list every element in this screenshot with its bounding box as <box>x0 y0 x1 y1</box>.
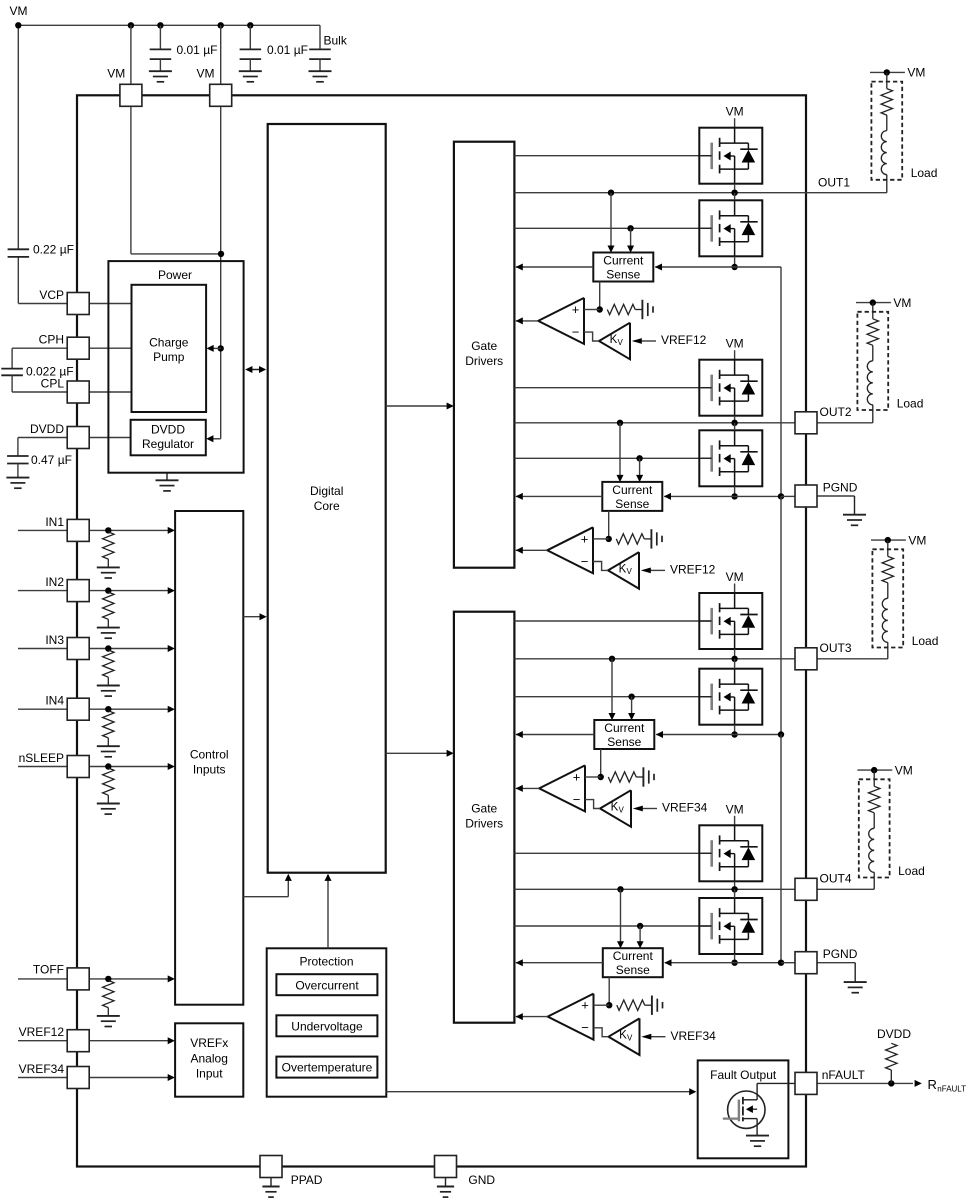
arrow CS4 tap2 <box>637 941 644 948</box>
svg-text:Load: Load <box>912 634 939 648</box>
junction OUT2 at FET leg <box>731 420 737 426</box>
wire VM feed load4 <box>857 769 892 771</box>
wire CS4 tap1 <box>620 889 622 946</box>
label VREF12 <box>19 1025 65 1039</box>
wire VM rail horizontal <box>18 24 320 26</box>
arrow CS2 tap1 <box>617 475 624 482</box>
wire CS2 to GateDrivers <box>516 495 602 497</box>
arrow into GateDrivers2 <box>447 750 454 757</box>
junction VM load4 <box>871 767 877 773</box>
arrow into GateDrivers1 <box>447 403 454 410</box>
label C1 value <box>177 43 218 57</box>
arrow CS3 tap2 <box>628 713 635 720</box>
svg-text:CPH: CPH <box>39 333 64 347</box>
wire CS4 to GateDrivers <box>516 962 603 964</box>
label Power <box>158 268 192 282</box>
ground nSLEEP pulldown <box>97 804 120 815</box>
junction comparator node 2 <box>606 536 612 542</box>
pin PGND1 <box>795 485 817 507</box>
block Power outline <box>108 261 243 473</box>
wire source join vertical lower <box>780 735 782 963</box>
block Undervoltage <box>276 1015 377 1036</box>
transistor Q9 fault (circle) <box>728 1091 765 1128</box>
pin IN2 <box>67 580 89 602</box>
inductor load4 <box>869 828 874 872</box>
label Load 4 <box>898 864 925 878</box>
svg-text:0.22 µF: 0.22 µF <box>33 243 74 257</box>
svg-text:K: K <box>619 1030 627 1042</box>
svg-text:K: K <box>619 563 627 575</box>
svg-text:Protection: Protection <box>299 955 353 969</box>
resistor load2 <box>867 303 878 346</box>
wire Q2 source to sense line <box>734 256 736 267</box>
ground below C3 <box>309 71 332 82</box>
arrow CS3 into GateDrivers <box>516 731 523 738</box>
wire Q5 source to OUT3 <box>734 649 736 659</box>
wire opamp3 plus input <box>585 776 601 778</box>
label Load 3 <box>912 634 939 648</box>
junction VM rail at C1 <box>157 22 163 28</box>
resistor RnFAULT pullup <box>886 1043 897 1083</box>
svg-text:VM: VM <box>197 67 215 81</box>
arrow VREF34 into VREFx block <box>168 1074 175 1081</box>
wire CS1 tap1 <box>610 193 612 251</box>
pin PPAD <box>260 1156 282 1178</box>
wire bridge3 low-side gate <box>514 696 711 698</box>
arrow opamp2 into GateDrivers <box>516 547 523 554</box>
label IN3 <box>45 633 64 647</box>
junction sense line bridge1 <box>731 264 737 270</box>
label Charge Pump <box>149 336 189 365</box>
block VREFx Analog Input <box>175 1023 243 1096</box>
transistor Q7 (high-side) <box>699 825 762 881</box>
svg-text:VM: VM <box>10 4 28 18</box>
label VCP <box>39 288 64 302</box>
wire bridge2 high-side gate <box>514 387 711 389</box>
wire net OUT3 <box>514 658 887 660</box>
svg-text:−: − <box>572 324 580 339</box>
junction CS1 tap1 <box>608 190 614 196</box>
wire VM feed load3 <box>871 539 906 541</box>
pin GND <box>435 1156 457 1178</box>
wire VM pin1 internal drop <box>131 106 221 254</box>
junction nSLEEP pulldown <box>105 763 111 769</box>
transistor Q5 (high-side) <box>699 593 762 649</box>
svg-text:Power: Power <box>158 268 192 282</box>
svg-text:Sense: Sense <box>616 963 650 977</box>
svg-text:K: K <box>611 802 619 814</box>
op-amp U2 <box>547 527 593 573</box>
net VM above Q1 <box>726 105 744 128</box>
IC boundary (chip outline) <box>77 95 806 1166</box>
label Bulk <box>324 34 348 48</box>
wire opamp3 output <box>516 787 539 789</box>
wire VREF34 into Kv3 <box>642 808 657 810</box>
pin VCP <box>67 293 89 315</box>
svg-text:VREF12: VREF12 <box>19 1025 65 1039</box>
wire PGND1 to ground <box>817 496 854 515</box>
inductor load1 <box>881 131 887 175</box>
svg-text:TOFF: TOFF <box>33 963 64 977</box>
arrow CS2 into GateDrivers <box>516 493 523 500</box>
ground PPAD <box>262 1178 279 1198</box>
wire rail to VM pin2 <box>220 25 222 84</box>
pin VREF34 <box>67 1067 89 1089</box>
svg-text:VM: VM <box>893 296 911 310</box>
wire opamp4 plus input <box>594 1004 610 1006</box>
wire source join vertical middle <box>780 496 782 734</box>
label IN4 <box>45 694 64 708</box>
wire VM pin2 internal drop <box>220 106 222 439</box>
svg-text:−: − <box>573 792 581 807</box>
svg-text:V: V <box>627 1034 633 1043</box>
Q9 drain path <box>743 1083 795 1099</box>
svg-text:Bulk: Bulk <box>324 34 348 48</box>
wire sense line bridge3 right <box>735 734 781 736</box>
svg-text:K: K <box>610 334 618 346</box>
block Digital Core <box>268 124 386 873</box>
arrow nSLEEP into Control Inputs <box>168 763 175 770</box>
label Gate Drivers 1 <box>465 339 503 368</box>
junction VM load1 <box>884 69 890 75</box>
block Current Sense 3 <box>594 720 654 749</box>
arrow into DigitalCore bottom 1 <box>285 874 292 881</box>
resistor offset R3 <box>608 772 643 782</box>
junction sense line bridge2 <box>731 493 737 499</box>
svg-text:Current: Current <box>604 721 645 735</box>
svg-text:Inputs: Inputs <box>193 763 226 777</box>
pin CPL <box>67 381 89 403</box>
resistor IN4 pulldown <box>103 711 114 746</box>
svg-text:VM: VM <box>726 105 744 119</box>
junction TOFF pulldown <box>105 976 111 982</box>
capacitor C3 bulk <box>309 25 331 71</box>
capacitor C4 0.22uF <box>8 249 30 257</box>
ground below C1 <box>149 71 172 82</box>
wire ControlInputs to DigitalCore <box>243 616 265 618</box>
arrow VREF12 into Kv1 <box>632 338 642 344</box>
wire CS4 tap2 <box>639 926 641 947</box>
label VREF12 bridge2 <box>670 563 716 577</box>
label Current Sense 1 <box>603 254 644 282</box>
label Load 2 <box>897 396 924 410</box>
amplifier Kv3 <box>600 790 631 827</box>
junction at PGND2 line <box>778 960 784 966</box>
wire Q4 source to sense line <box>734 486 736 496</box>
label C6 value <box>31 453 72 467</box>
svg-text:VM: VM <box>107 67 125 81</box>
arrow into DigitalCore bottom 2 <box>325 874 332 881</box>
svg-text:V: V <box>627 567 633 576</box>
junction VM rail at VM pin1 <box>128 22 134 28</box>
junction CS3 tap2 <box>628 694 634 700</box>
svg-text:Current: Current <box>613 949 654 963</box>
wire PGND2 to ground <box>817 963 855 982</box>
wire sense line bridge4 right <box>735 962 781 964</box>
resistor nSLEEP pulldown <box>103 768 114 803</box>
svg-text:Fault Output: Fault Output <box>710 1068 777 1082</box>
svg-text:PPAD: PPAD <box>291 1173 323 1187</box>
svg-text:VM: VM <box>726 337 744 351</box>
svg-text:Current: Current <box>612 483 653 497</box>
block Current Sense 2 <box>602 482 662 511</box>
wire CS3 tap2 <box>631 697 633 719</box>
label IN1 <box>45 515 64 529</box>
wire opamp1 output <box>516 320 538 322</box>
svg-text:Regulator: Regulator <box>142 437 194 451</box>
amplifier Kv1 <box>599 323 630 360</box>
label OUT2 <box>820 405 852 419</box>
pin OUT2 <box>795 412 817 434</box>
pin OUT3 <box>795 648 817 670</box>
junction VM rail at C2 <box>247 22 253 28</box>
resistor offset R4 <box>617 1000 652 1010</box>
ground PGND1 <box>843 515 866 526</box>
svg-text:PGND: PGND <box>823 481 858 495</box>
wire bridge4 high-side gate <box>514 852 711 854</box>
transistor Q8 (low-side) <box>699 898 762 954</box>
junction IN1 pulldown <box>105 527 111 533</box>
label Overtemperature <box>282 1061 373 1075</box>
label VREF34 bridge3 <box>662 801 708 815</box>
arrow VREF12 into Kv2 <box>641 568 651 574</box>
wire sense line bridge2 right <box>735 495 781 497</box>
ground Q9 source <box>746 1136 769 1147</box>
label OUT3 <box>820 641 852 655</box>
svg-text:Input: Input <box>196 1067 223 1081</box>
svg-text:Drivers: Drivers <box>465 817 503 831</box>
label Control Inputs <box>190 748 229 777</box>
junction CS2 tap2 <box>636 455 642 461</box>
label IN2 <box>45 575 64 589</box>
block Charge Pump <box>132 285 207 412</box>
wire CS2 tap1 <box>619 423 621 480</box>
Q9 substrate arrow <box>746 1105 757 1113</box>
svg-text:−: − <box>581 554 589 569</box>
junction IN4 pulldown <box>105 706 111 712</box>
wire Q6 source to sense line <box>734 725 736 735</box>
wire DigitalCore to GateDrivers2 <box>386 752 452 754</box>
wire opamp2 output <box>516 549 547 551</box>
wire Q3 source to OUT2 <box>734 416 736 423</box>
junction VM rail at VM pin2 <box>218 22 224 28</box>
wire IN4 to Control Inputs <box>89 708 173 710</box>
svg-text:Analog: Analog <box>191 1052 228 1066</box>
label PGND2 <box>823 947 858 961</box>
wire sense into CS2 <box>664 495 734 497</box>
wire DigitalCore to GateDrivers1 <box>386 405 452 407</box>
svg-text:IN2: IN2 <box>45 575 64 589</box>
label nSLEEP <box>19 751 64 765</box>
wire Protection to Fault Output <box>386 1091 694 1093</box>
svg-text:DVDD: DVDD <box>877 1027 911 1041</box>
label Current Sense 4 <box>613 949 654 977</box>
svg-text:0.022 µF: 0.022 µF <box>26 365 74 379</box>
wire CPL to charge pump <box>89 391 131 393</box>
label PPAD <box>291 1173 323 1187</box>
wire IN2 to Control Inputs <box>89 590 173 592</box>
current reference ground 2 <box>651 529 662 548</box>
wire sense2 to PGND1 pin <box>781 495 795 497</box>
svg-text:Gate: Gate <box>471 339 497 353</box>
capacitor C2 0.01uF <box>240 25 262 71</box>
block Control Inputs <box>175 511 243 1005</box>
wire IN2 external stub <box>18 590 67 592</box>
junction CS4 tap1 <box>617 886 623 892</box>
arrow VREF34 into Kv4 <box>641 1034 651 1040</box>
wire VM to DVDD regulator <box>209 438 221 440</box>
svg-text:Load: Load <box>897 396 924 410</box>
wire CPH to charge pump <box>89 347 131 349</box>
svg-text:VM: VM <box>895 763 913 777</box>
wire IN3 external stub <box>18 648 67 650</box>
wire CS3 tap1 <box>611 659 613 719</box>
label DVDD Regulator <box>142 423 194 452</box>
svg-text:IN4: IN4 <box>45 694 64 708</box>
svg-text:VREFx: VREFx <box>190 1036 228 1050</box>
wire load4 to OUT4 <box>873 872 875 889</box>
op-amp U1 <box>538 298 584 344</box>
resistor IN3 pulldown <box>103 650 114 685</box>
wire sense into CS3 <box>656 734 734 736</box>
wire IN1 external stub <box>18 529 67 531</box>
net VM above Q3 <box>726 337 744 360</box>
pin VREF12 <box>67 1030 89 1052</box>
wire VREF12 external stub <box>18 1040 67 1042</box>
svg-text:Load: Load <box>898 864 925 878</box>
arrow into CS3 <box>656 731 663 738</box>
label RnFAULT <box>928 1077 967 1094</box>
wire CS2 to comparator node <box>608 511 610 539</box>
label CPL <box>41 377 65 391</box>
pin VM1 label <box>107 67 125 81</box>
wire IN3 to Control Inputs <box>89 648 173 650</box>
transistor Q4 (low-side) <box>699 430 762 486</box>
block DVDD Regulator <box>131 420 206 456</box>
label GND <box>468 1173 495 1187</box>
wire Kv3 to opamp minus <box>585 800 600 809</box>
svg-text:VCP: VCP <box>39 288 64 302</box>
wire VREF34 to VREFx block <box>89 1077 173 1079</box>
ground TOFF pulldown <box>97 1016 120 1027</box>
svg-text:DVDD: DVDD <box>30 422 64 436</box>
arrow into CS1 <box>655 264 662 271</box>
wire bridge4 low-side gate <box>514 925 711 927</box>
wire load2 to OUT2 <box>872 405 874 423</box>
arrow CS4 tap1 <box>617 941 624 948</box>
wire opamp4 output <box>516 1016 548 1018</box>
label DVDD pin <box>30 422 64 436</box>
block Current Sense 1 <box>593 253 653 282</box>
svg-text:VREF34: VREF34 <box>662 801 708 815</box>
transistor Q3 (high-side) <box>699 360 762 416</box>
svg-text:PGND: PGND <box>823 947 858 961</box>
svg-text:+: + <box>581 998 589 1013</box>
junction sense line bridge3 <box>731 731 737 737</box>
arrow CS1 tap2 <box>627 246 634 253</box>
svg-text:GND: GND <box>468 1173 495 1187</box>
resistor offset R2 <box>616 534 651 544</box>
svg-text:VREF12: VREF12 <box>661 333 707 347</box>
wire VM feed load2 <box>856 302 891 304</box>
svg-text:VREF34: VREF34 <box>671 1029 717 1043</box>
block Gate Drivers 1 <box>454 142 515 568</box>
label C4 value <box>33 243 74 257</box>
junction comparator node 3 <box>598 774 604 780</box>
junction OUT3 at FET leg <box>731 656 737 662</box>
wire TOFF external stub <box>18 978 67 980</box>
svg-text:Pump: Pump <box>153 350 185 364</box>
wire VREF34 into Kv4 <box>651 1036 666 1038</box>
label VREF34 <box>19 1062 65 1076</box>
transistor Q2 (low-side) <box>699 200 762 256</box>
Q9 gate <box>723 1100 739 1122</box>
svg-text:OUT4: OUT4 <box>820 872 852 886</box>
svg-text:OUT3: OUT3 <box>820 641 852 655</box>
arrow VREF34 into Kv3 <box>633 806 643 812</box>
wire CS3 to comparator node <box>600 749 602 777</box>
ground GND pin <box>437 1178 454 1198</box>
label Digital Core <box>310 484 343 513</box>
wire Kv1 to opamp minus <box>584 332 599 341</box>
junction VM at charge pump <box>218 345 224 351</box>
label Gate Drivers 2 <box>465 802 503 831</box>
wire nSLEEP external stub <box>18 766 67 768</box>
junction at PGND1 line <box>778 493 784 499</box>
load3 dashed outline <box>872 549 903 647</box>
label Load 1 <box>911 166 938 180</box>
block Current Sense 4 <box>603 948 663 977</box>
junction comparator node 4 <box>606 1002 612 1008</box>
transistor Q1 (high-side) <box>699 128 762 184</box>
resistor IN1 pulldown <box>103 532 114 567</box>
arrow TOFF into Control Inputs <box>168 975 175 982</box>
wire VCP to charge pump <box>89 303 131 305</box>
block Overcurrent <box>276 974 377 995</box>
svg-text:VREF34: VREF34 <box>19 1062 65 1076</box>
svg-text:Core: Core <box>314 499 340 513</box>
amplifier Kv4 <box>609 1018 640 1055</box>
net VM above Q7 <box>726 802 744 825</box>
wire VREF12 to VREFx block <box>89 1040 173 1042</box>
svg-text:Sense: Sense <box>607 735 641 749</box>
junction IN3 pulldown <box>105 645 111 651</box>
wire load3 to OUT3 <box>887 642 889 659</box>
wire sense line bridge1 right <box>735 266 781 268</box>
junction CS1 tap2 <box>627 225 633 231</box>
current reference ground 3 <box>643 767 654 786</box>
wire Q8 source to sense line <box>734 954 736 963</box>
pin TOFF <box>67 968 89 990</box>
transistor Q6 (low-side) <box>699 669 762 725</box>
block Fault Output <box>698 1060 789 1158</box>
svg-text:R: R <box>928 1077 937 1092</box>
wire net OUT4 <box>514 888 874 890</box>
resistor load4 <box>869 770 880 813</box>
arrow nFAULT out <box>915 1080 922 1087</box>
wire CS1 tap2 <box>630 228 632 251</box>
junction VM rail left <box>15 22 21 28</box>
wire Kv4 to opamp minus <box>594 1028 609 1037</box>
wire VREF12 into Kv1 <box>641 340 656 342</box>
svg-text:0.47 µF: 0.47 µF <box>31 453 72 467</box>
svg-text:Drivers: Drivers <box>465 354 503 368</box>
wire CS3 to GateDrivers <box>516 734 594 736</box>
svg-text:Overcurrent: Overcurrent <box>295 978 359 992</box>
svg-text:+: + <box>573 769 581 784</box>
ground below Power block <box>156 473 179 491</box>
svg-text:Charge: Charge <box>149 336 189 350</box>
